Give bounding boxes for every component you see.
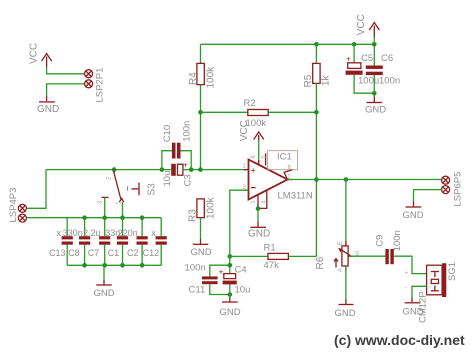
pad LSP2	[85, 80, 93, 88]
wire output net	[288, 179, 442, 181]
junction rail C2	[140, 215, 145, 220]
svg-text:100n: 100n	[392, 230, 403, 251]
svg-text:+: +	[405, 271, 409, 277]
switch S3	[98, 170, 158, 205]
capacitor C8 330n	[63, 218, 90, 266]
svg-text:VCC: VCC	[239, 120, 250, 141]
junction bottom rail C2	[140, 263, 145, 268]
svg-text:S3: S3	[147, 183, 158, 196]
resistor R1 47k	[264, 243, 289, 272]
ground (op-amp)	[248, 221, 270, 240]
wire R3 bottom	[200, 218, 202, 239]
resistor R4 100k	[188, 63, 217, 88]
capacitor bank bottom rail	[67, 264, 161, 266]
wire output pull-up column	[315, 83, 317, 256]
junction C10/C3 left	[160, 167, 165, 172]
svg-text:2.2u: 2.2u	[83, 228, 101, 238]
pad LSP4	[18, 214, 26, 222]
svg-text:C4: C4	[235, 265, 247, 276]
capacitor C5 100u	[346, 53, 380, 87]
wire input net (non-inverting)	[46, 169, 171, 171]
capacitor C2 220n	[118, 218, 148, 266]
svg-text:(c) www.doc-diy.net: (c) www.doc-diy.net	[334, 332, 465, 348]
junction C11 top tap	[228, 263, 233, 268]
wire bank to ground	[103, 265, 105, 280]
svg-text:C2: C2	[127, 248, 139, 258]
capacitor C4 10u (electrolytic)	[219, 265, 251, 296]
svg-text:R6: R6	[315, 256, 326, 269]
wire switch pin1 to cap rail	[122, 202, 124, 218]
capacitor bank top rail	[27, 217, 162, 219]
ground (top-left)	[37, 96, 59, 115]
ground (buzzer)	[403, 291, 429, 323]
wire R1 right to output column	[288, 255, 316, 257]
junction C4/C11 bottom	[228, 292, 233, 297]
svg-text:+: +	[219, 268, 224, 277]
junction op-amp ground pins	[256, 206, 261, 211]
svg-text:10u: 10u	[235, 285, 251, 296]
balance box IC1	[268, 151, 298, 170]
svg-text:~: ~	[123, 186, 133, 191]
svg-text:+: +	[183, 161, 188, 170]
svg-text:R2: R2	[244, 98, 256, 109]
junction bottom rail C8	[82, 263, 87, 268]
pin 5 stub	[265, 153, 267, 165]
svg-text:LSP2P1: LSP2P1	[94, 68, 105, 103]
pin 8 stub	[258, 160, 260, 166]
svg-text:330n: 330n	[63, 228, 83, 238]
svg-text:C3: C3	[183, 174, 194, 186]
svg-text:R5: R5	[303, 74, 314, 87]
capacitor C7 2.2u	[83, 218, 110, 266]
capacitor C13	[49, 218, 73, 266]
junction R5 top	[314, 42, 319, 47]
svg-text:IC1: IC1	[277, 151, 292, 162]
wire R1 left	[230, 255, 268, 257]
pin 7 stub	[288, 179, 293, 181]
junction rail C8	[82, 215, 87, 220]
pin 4 stub	[258, 190, 267, 209]
svg-text:x: x	[57, 228, 62, 238]
supply VCC (top-left)	[29, 43, 52, 67]
node VCC top rail	[201, 43, 375, 45]
pin 6 link	[284, 165, 292, 179]
svg-text:C1: C1	[108, 248, 120, 258]
svg-text:LSP4P3: LSP4P3	[8, 188, 19, 223]
resistor R5 1k	[303, 63, 332, 87]
pad LSP5	[442, 176, 450, 184]
svg-text:GND: GND	[248, 229, 270, 240]
wire R6 top	[345, 180, 347, 246]
svg-text:100u: 100u	[358, 76, 379, 87]
wire C5 branch	[353, 44, 355, 62]
wire to C4	[229, 256, 231, 273]
junction R2 left	[198, 110, 203, 115]
wire R2 right	[268, 111, 316, 113]
svg-text:C8: C8	[68, 248, 80, 258]
wire VCC arrow to rail	[373, 37, 375, 44]
junction bottom rail C1	[120, 263, 125, 268]
svg-text:220n: 220n	[118, 228, 138, 238]
svg-text:C6: C6	[381, 53, 393, 64]
ground (R6)	[335, 299, 356, 319]
pad LSP6	[442, 186, 450, 194]
junction C5/C6 bottom	[372, 91, 377, 96]
wire C6 bottom to ground	[373, 75, 375, 97]
svg-text:GND: GND	[335, 308, 356, 319]
wire buzzer minus to ground	[412, 286, 427, 297]
capacitor C12	[143, 218, 167, 266]
svg-text:SG1: SG1	[447, 262, 458, 281]
capacitor C1 33n	[105, 218, 128, 266]
svg-text:A: A	[338, 268, 344, 272]
svg-text:LSP6P5: LSP6P5	[453, 172, 464, 207]
junction divider node	[198, 167, 203, 172]
svg-text:VCC: VCC	[356, 14, 367, 35]
svg-text:47k: 47k	[264, 260, 280, 271]
svg-text:C13: C13	[49, 248, 66, 258]
wire R2 left	[201, 111, 248, 113]
junction rail C1	[120, 215, 125, 220]
svg-text:R4: R4	[188, 72, 199, 85]
svg-text:GND: GND	[220, 307, 241, 318]
wire R6 bottom	[345, 266, 347, 299]
pad LSP3	[18, 204, 26, 212]
svg-text:x: x	[151, 228, 156, 238]
junction rail C7	[102, 215, 107, 220]
pot pin stubs	[345, 241, 347, 246]
pin 1 stub	[257, 194, 259, 208]
wire pin 8	[258, 140, 260, 165]
wire LSP6 to ground	[414, 190, 442, 201]
ground (R3)	[191, 239, 212, 258]
svg-text:GND: GND	[191, 247, 212, 258]
svg-text:R3: R3	[188, 209, 199, 222]
svg-text:CM12P: CM12P	[417, 291, 428, 323]
svg-text:GND: GND	[403, 210, 424, 221]
buzzer SG1 CM12P	[405, 262, 459, 297]
svg-text:100k: 100k	[205, 66, 216, 89]
svg-text:10u: 10u	[162, 171, 173, 187]
wire R4 top stub	[200, 44, 202, 63]
svg-text:R1: R1	[264, 243, 276, 254]
svg-text:GND: GND	[365, 105, 386, 116]
svg-text:GND: GND	[94, 288, 115, 299]
svg-text:100n: 100n	[379, 76, 400, 87]
svg-text:C5: C5	[361, 53, 373, 64]
resistor R3 100k	[188, 196, 217, 222]
svg-text:C9: C9	[375, 235, 386, 247]
wire R4 bottom to divider node	[200, 85, 202, 170]
wire R6 wiper to C9	[350, 255, 386, 257]
svg-text:C11: C11	[189, 285, 206, 296]
pin 3 stub	[244, 189, 249, 191]
junction R1 tap	[228, 254, 233, 259]
svg-text:LM311N: LM311N	[278, 191, 313, 202]
capacitor C3 10u (electrolytic, series)	[162, 161, 193, 187]
junction C3/C10 right	[189, 167, 194, 172]
wire to ground	[229, 284, 231, 297]
resistor R2 100k	[244, 98, 269, 129]
junction bottom rail C7	[102, 263, 107, 268]
wire GND to pad LSP2	[47, 84, 85, 96]
wire C6 top	[373, 44, 375, 65]
svg-text:C10: C10	[162, 125, 173, 142]
wire op-amp ground	[257, 209, 259, 221]
svg-text:1k: 1k	[321, 74, 332, 86]
ground (C4/C11)	[220, 297, 241, 318]
svg-text:-: -	[405, 286, 407, 292]
supply VCC (top-right)	[356, 14, 379, 37]
ground (top-right)	[365, 97, 386, 116]
wire inverting input	[230, 190, 249, 256]
ground (LSP6)	[403, 201, 424, 221]
capacitor C10 100n (bypass over C3)	[162, 121, 193, 170]
svg-text:100n: 100n	[185, 263, 206, 274]
potentiometer R6	[315, 241, 360, 272]
svg-text:+: +	[251, 166, 256, 176]
pin 2 stub	[244, 169, 249, 171]
junction output/R6	[344, 177, 349, 182]
svg-text:100k: 100k	[205, 196, 216, 219]
pad LSP1	[85, 70, 93, 78]
svg-text:100n: 100n	[182, 121, 193, 142]
svg-text:VCC: VCC	[29, 43, 40, 64]
capacitor C9 100n	[375, 230, 404, 264]
svg-text:GND: GND	[37, 104, 59, 115]
wire R5 top stub	[315, 44, 317, 63]
junction switch common	[112, 167, 117, 172]
junction R2 right	[314, 110, 319, 115]
op-amp IC1 LM311N	[243, 160, 313, 202]
svg-text:C7: C7	[88, 248, 100, 258]
ground (capacitor bank)	[94, 280, 115, 299]
wire VCC to pad LSP1	[47, 67, 85, 74]
svg-text:C12: C12	[143, 248, 160, 258]
wire LSP3 to input net	[27, 170, 47, 209]
wire C9 to buzzer plus	[394, 256, 427, 273]
capacitor C11 100n	[185, 263, 230, 296]
svg-text:E: E	[338, 241, 344, 245]
wire switch pin3 to cap rail	[104, 197, 106, 217]
junction VCC stem	[372, 42, 377, 47]
supply VCC (op-amp pin 8)	[239, 120, 264, 141]
junction output/pull-up	[314, 177, 319, 182]
capacitor C6 100n	[366, 53, 400, 87]
wire C3 right to op-amp + input	[183, 169, 249, 171]
wire C5 bottom	[354, 75, 374, 93]
junction C5 top	[352, 42, 357, 47]
